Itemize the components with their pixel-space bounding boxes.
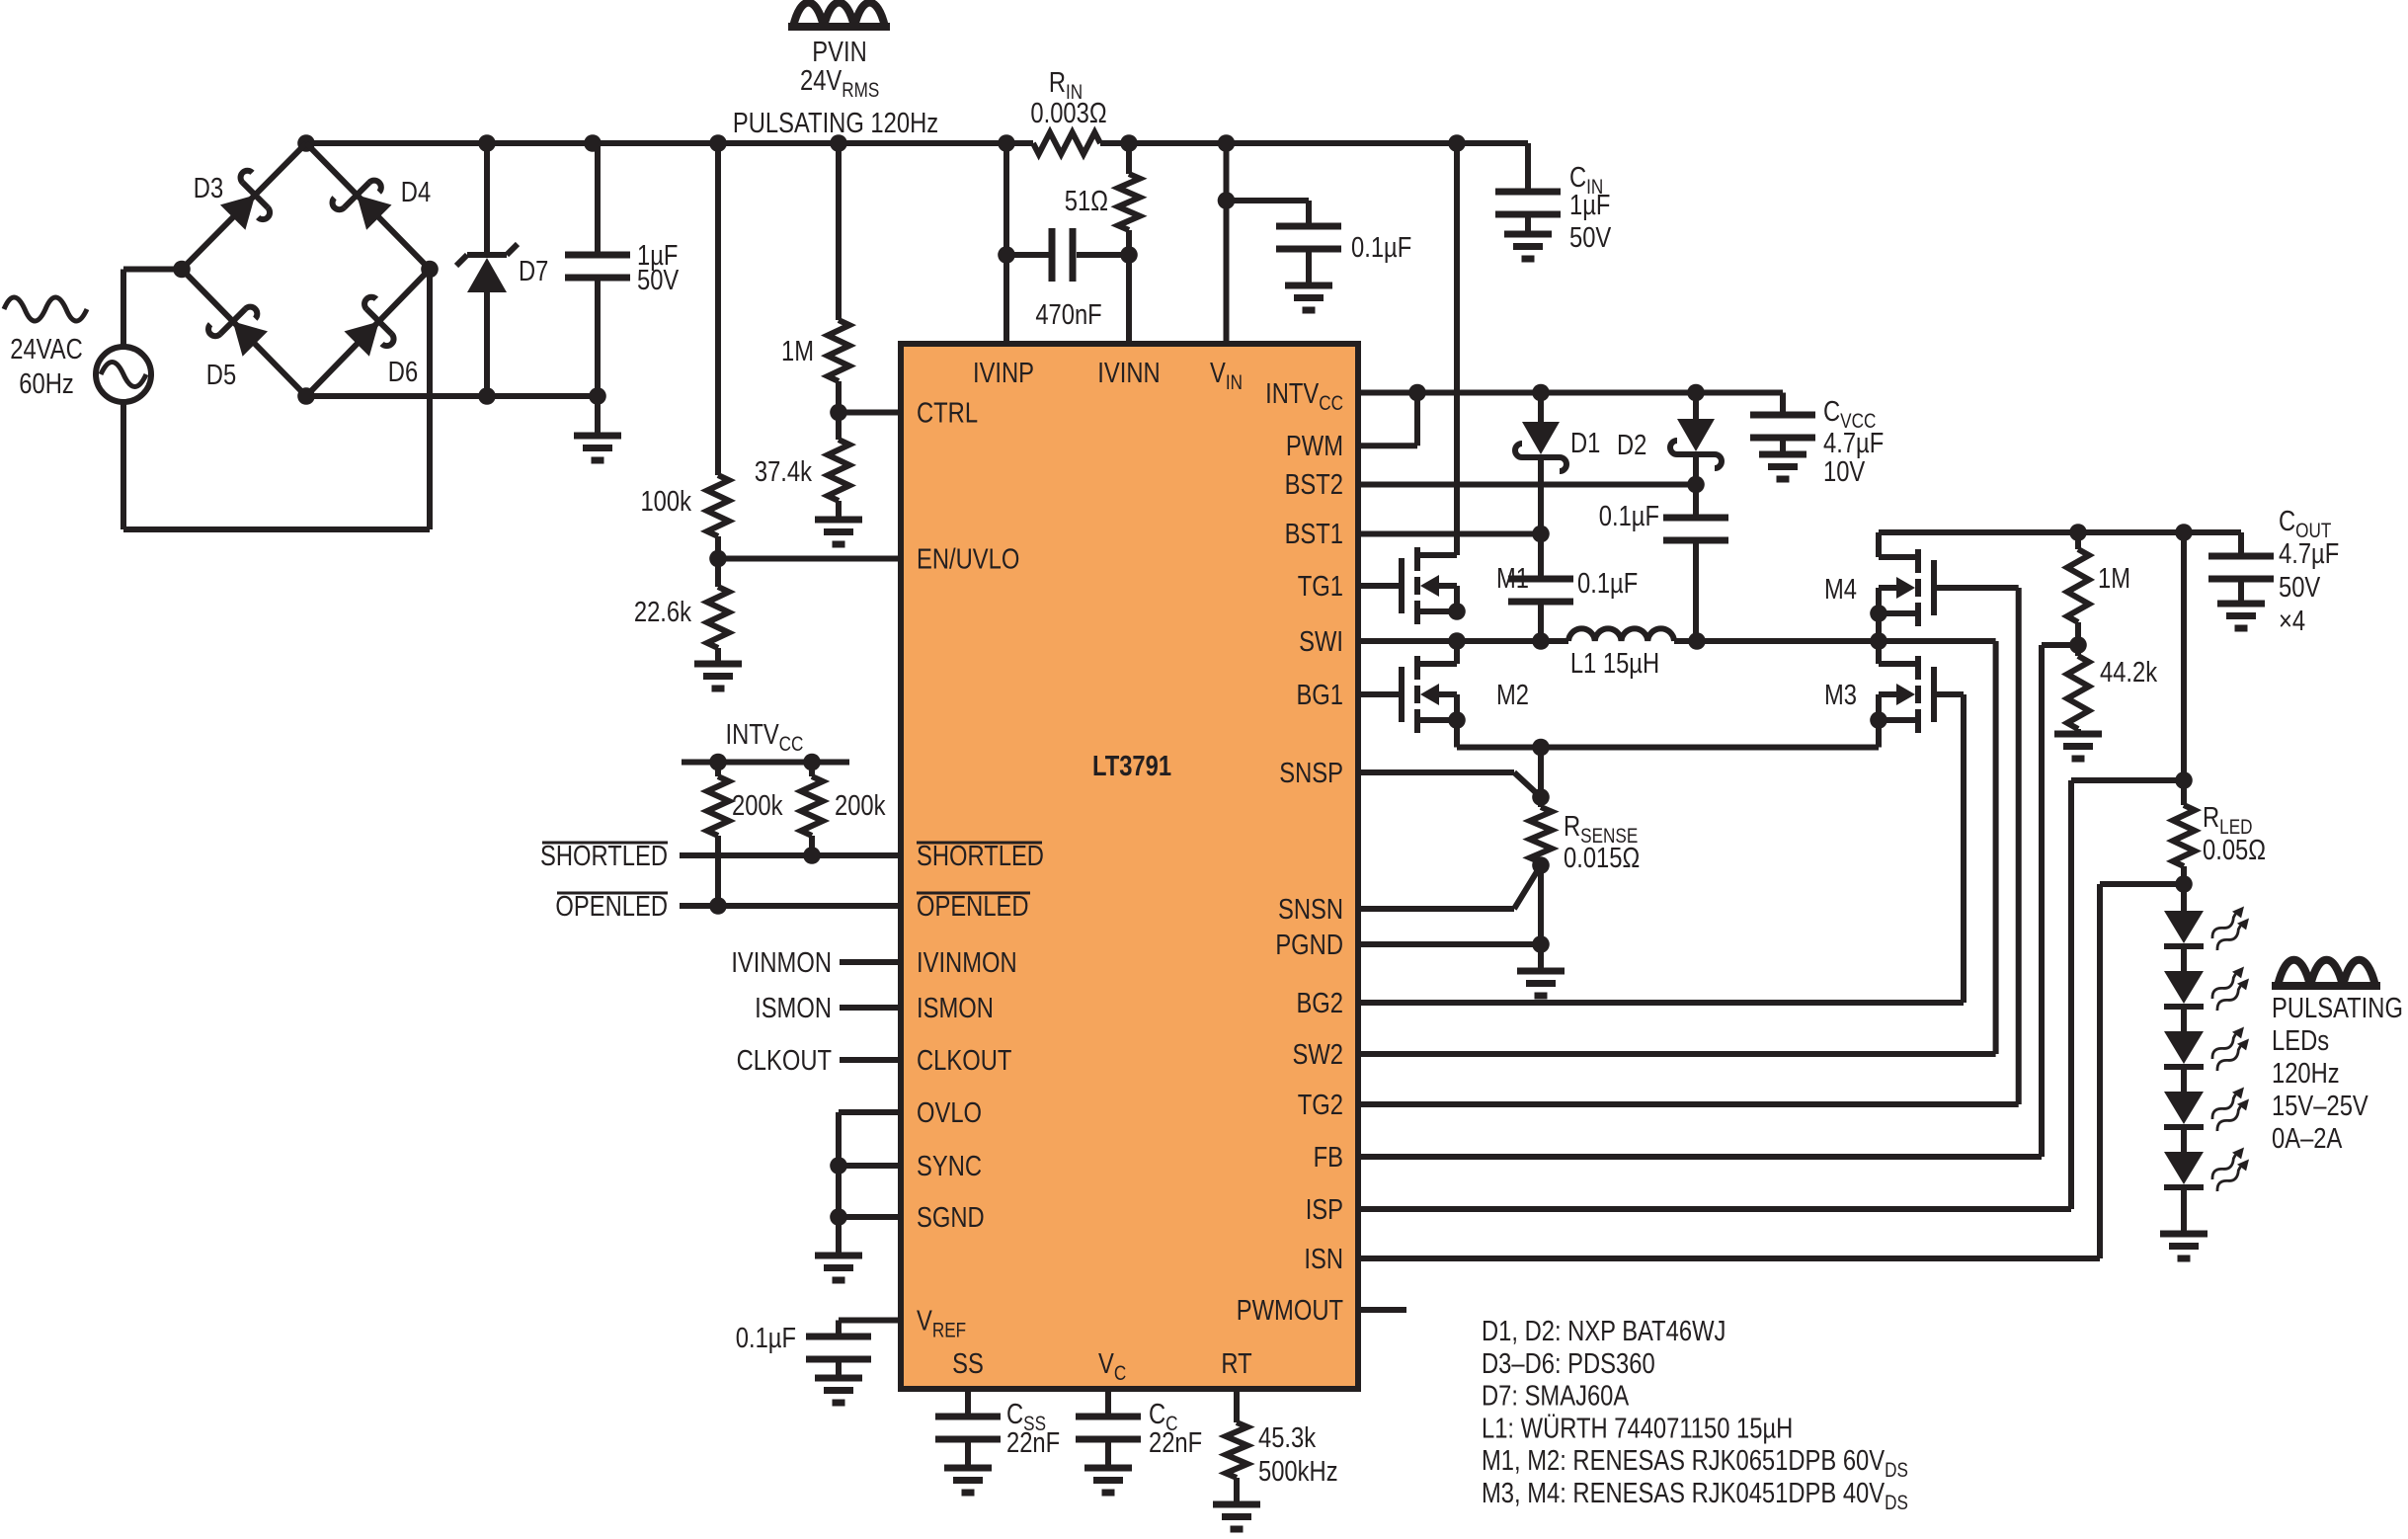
svg-text:50V: 50V [637,264,680,296]
svg-text:TG2: TG2 [1298,1089,1343,1121]
svg-text:SWI: SWI [1299,625,1343,658]
svg-text:ISN: ISN [1304,1243,1343,1275]
svg-text:CTRL: CTRL [917,396,978,429]
svg-text:PWM: PWM [1286,430,1343,462]
svg-text:ISP: ISP [1306,1193,1343,1226]
svg-text:D4: D4 [401,176,431,208]
svg-text:D5: D5 [206,359,236,391]
svg-text:BST1: BST1 [1285,518,1343,550]
svg-text:RT: RT [1221,1347,1251,1380]
svg-text:OVLO: OVLO [917,1096,982,1129]
svg-text:24VAC: 24VAC [10,333,83,365]
svg-text:SS: SS [952,1347,984,1380]
svg-text:M4: M4 [1824,573,1857,606]
svg-text:15V–25V: 15V–25V [2272,1090,2368,1122]
svg-text:0.1µF: 0.1µF [1351,231,1411,264]
svg-text:D3–D6: PDS360: D3–D6: PDS360 [1482,1347,1655,1380]
svg-text:4.7µF: 4.7µF [1823,427,1884,459]
svg-text:OPENLED: OPENLED [917,890,1029,923]
svg-text:0.015Ω: 0.015Ω [1564,842,1640,874]
svg-text:SNSP: SNSP [1279,757,1343,789]
svg-text:22.6k: 22.6k [634,596,692,628]
svg-text:100k: 100k [640,485,691,518]
svg-text:D2: D2 [1617,429,1646,461]
svg-text:IVINMON: IVINMON [731,946,832,979]
svg-text:PULSATING: PULSATING [2272,992,2403,1024]
svg-text:0.1µF: 0.1µF [1577,567,1638,600]
svg-text:D7: SMAJ60A: D7: SMAJ60A [1482,1379,1630,1412]
svg-text:0A–2A: 0A–2A [2272,1122,2343,1155]
svg-text:×4: ×4 [2279,605,2305,637]
svg-text:120Hz: 120Hz [2272,1057,2340,1090]
svg-text:0.003Ω: 0.003Ω [1030,97,1106,129]
svg-text:D7: D7 [519,255,548,287]
svg-text:SGND: SGND [917,1201,985,1234]
svg-text:ISMON: ISMON [755,992,832,1024]
svg-text:D6: D6 [388,356,418,388]
svg-text:ISMON: ISMON [917,992,994,1024]
svg-text:L1 15µH: L1 15µH [1570,647,1659,680]
svg-text:0.1µF: 0.1µF [1599,500,1659,532]
svg-text:D1: D1 [1570,427,1600,459]
svg-text:22nF: 22nF [1149,1426,1202,1459]
svg-text:PGND: PGND [1275,929,1343,961]
svg-text:45.3k: 45.3k [1258,1421,1317,1454]
svg-text:BG1: BG1 [1296,679,1343,711]
svg-text:1µF: 1µF [1569,189,1610,221]
svg-text:SW2: SW2 [1292,1038,1343,1071]
svg-text:TG1: TG1 [1298,570,1343,603]
svg-text:200k: 200k [835,789,886,822]
svg-text:44.2k: 44.2k [2100,656,2158,688]
svg-text:D1, D2: NXP BAT46WJ: D1, D2: NXP BAT46WJ [1482,1315,1726,1347]
svg-text:500kHz: 500kHz [1258,1455,1338,1488]
svg-text:0.05Ω: 0.05Ω [2203,834,2266,866]
svg-text:IVINN: IVINN [1097,357,1160,389]
svg-text:22nF: 22nF [1006,1426,1060,1459]
svg-text:50V: 50V [1569,221,1612,254]
svg-text:M2: M2 [1496,679,1529,711]
svg-text:LT3791: LT3791 [1092,750,1171,782]
svg-text:1M: 1M [781,335,814,367]
svg-text:50V: 50V [2279,571,2321,604]
svg-text:0.1µF: 0.1µF [736,1322,796,1354]
svg-text:60Hz: 60Hz [19,367,73,400]
svg-text:M1: M1 [1496,562,1529,595]
svg-text:37.4k: 37.4k [755,455,813,488]
svg-text:LEDs: LEDs [2272,1024,2329,1057]
svg-text:4.7µF: 4.7µF [2279,537,2339,570]
svg-text:SYNC: SYNC [917,1150,982,1182]
svg-text:SNSN: SNSN [1278,893,1343,926]
svg-text:PWMOUT: PWMOUT [1237,1294,1343,1327]
svg-text:BG2: BG2 [1296,987,1343,1019]
svg-text:PULSATING 120Hz: PULSATING 120Hz [733,107,938,139]
svg-text:FB: FB [1314,1141,1343,1174]
svg-text:L1: WÜRTH 744071150 15µH: L1: WÜRTH 744071150 15µH [1482,1412,1793,1444]
svg-text:51Ω: 51Ω [1065,185,1108,217]
svg-text:470nF: 470nF [1035,298,1101,331]
svg-text:CLKOUT: CLKOUT [737,1044,832,1077]
svg-text:SHORTLED: SHORTLED [917,840,1044,872]
svg-text:SHORTLED: SHORTLED [540,840,668,872]
svg-text:EN/UVLO: EN/UVLO [917,542,1019,575]
svg-text:OPENLED: OPENLED [555,890,668,923]
svg-text:200k: 200k [732,789,783,822]
svg-text:CLKOUT: CLKOUT [917,1044,1011,1077]
svg-text:1M: 1M [2098,562,2130,595]
svg-text:BST2: BST2 [1285,468,1343,501]
svg-text:D3: D3 [194,172,223,204]
svg-text:IVINP: IVINP [973,357,1034,389]
svg-text:PVIN: PVIN [812,36,866,68]
svg-text:IVINMON: IVINMON [917,946,1017,979]
svg-text:10V: 10V [1823,455,1866,488]
svg-text:M3: M3 [1824,679,1857,711]
